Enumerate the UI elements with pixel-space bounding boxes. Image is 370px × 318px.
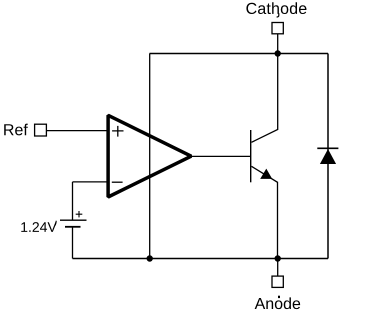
wire cathode stub xyxy=(277,34,279,54)
transistor Q1 emitter xyxy=(252,166,278,258)
junction dot feedback xyxy=(147,255,153,261)
wire ref input xyxy=(47,130,107,132)
diode D1 cathode bar xyxy=(317,147,338,149)
transistor Q1 emitter arrow xyxy=(260,169,272,179)
junction dot cathode xyxy=(275,50,281,56)
terminal Anode xyxy=(272,276,283,287)
label Ref xyxy=(4,124,28,136)
battery V1 plate long xyxy=(60,219,87,221)
wire feedback vertical xyxy=(149,54,151,259)
label 1.24V xyxy=(21,222,56,232)
junction dot anode xyxy=(275,255,281,261)
wire top rail xyxy=(150,53,329,55)
wire battery bottom xyxy=(72,227,74,259)
label Anode dot artifact xyxy=(278,296,280,298)
op-amp U1 minus input sign xyxy=(112,181,123,183)
wire anode stub xyxy=(277,259,279,277)
terminal Ref xyxy=(35,124,47,136)
label Cathode xyxy=(246,2,306,14)
wire battery top xyxy=(72,182,74,220)
wire inverting input xyxy=(73,181,107,183)
battery V1 plus sign xyxy=(76,211,83,217)
wire right diode branch xyxy=(327,54,329,259)
terminal Cathode xyxy=(272,23,283,34)
wire op-amp output to base xyxy=(191,155,251,157)
diode D1 triangle xyxy=(320,149,336,164)
op-amp U1 plus input sign xyxy=(112,126,123,137)
label 1.24V apostrophe artifact xyxy=(55,221,56,225)
label Cathode h-hook artifact xyxy=(277,13,279,17)
battery V1 plate short xyxy=(65,226,81,228)
wire bottom rail xyxy=(73,258,329,260)
op-amp U1 triangle xyxy=(108,115,191,197)
transistor Q1 collector xyxy=(252,54,278,143)
label Anode xyxy=(255,297,301,309)
transistor Q1 base bar xyxy=(250,130,252,182)
